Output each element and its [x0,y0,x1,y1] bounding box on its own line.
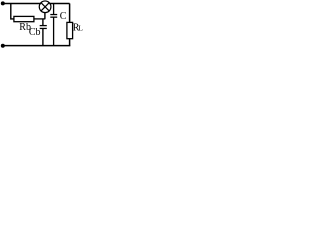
lamp B1 (circle with X) [39,1,51,13]
wire top-right (lamp to right corner) [49,2,69,4]
wire left branch (top wire down to Rb lead) [11,3,14,18]
resistor RL (vertical box) [67,22,73,38]
capacitor Cb [40,19,47,46]
wire top-left (dot to lamp) [3,2,41,4]
wire RL bottom stem [69,39,71,46]
node IN+ (top-left terminal dot) [1,1,5,5]
wire right vertical [69,3,71,22]
svg-text:L: L [78,24,83,33]
svg-text:Cb: Cb [29,27,41,38]
capacitor C [50,3,57,45]
node IN- (bottom-left terminal dot) [1,44,5,48]
wire lamp bottom stub [44,13,46,19]
svg-text:C: C [60,11,67,22]
resistor Rb (horizontal box) [14,16,34,21]
wire Rb right lead [34,18,45,20]
wire bottom [3,45,71,47]
